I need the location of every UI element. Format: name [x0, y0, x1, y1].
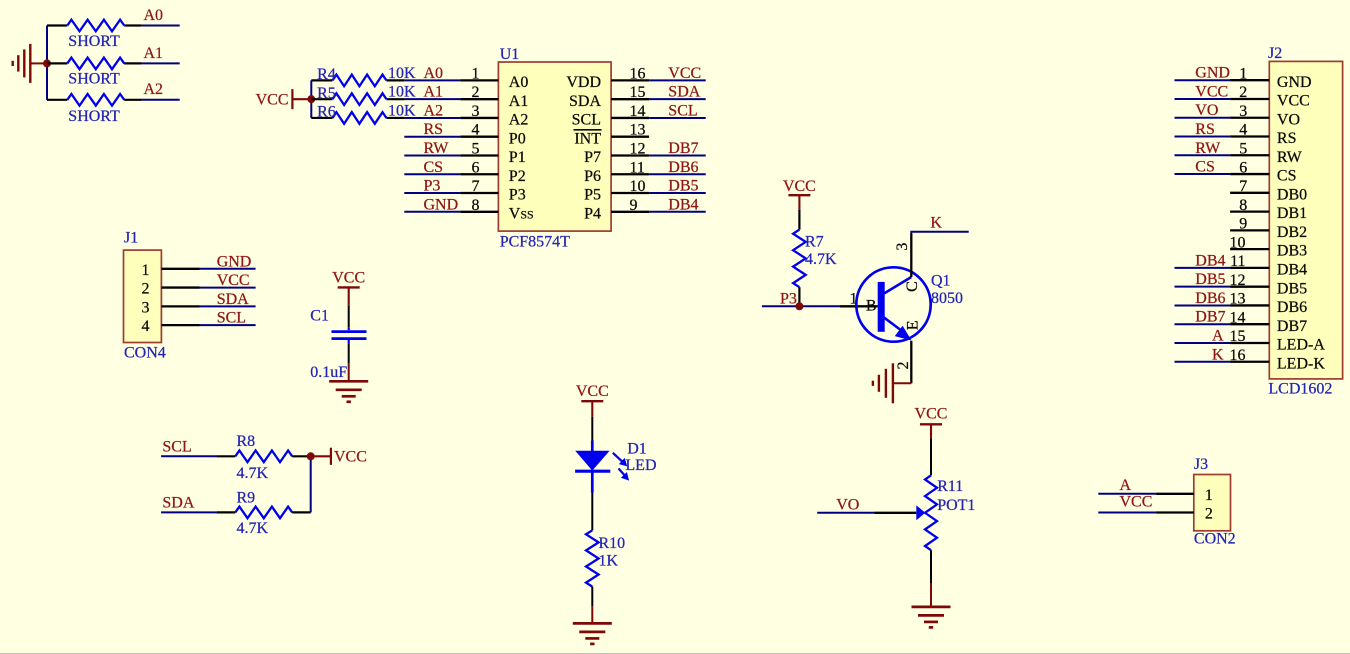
J2 pin 1 stub — [1230, 79, 1269, 81]
svg-text:RW: RW — [1195, 140, 1221, 157]
J2 pin 2 stub — [1230, 98, 1269, 100]
svg-text:A0: A0 — [144, 7, 164, 24]
svg-text:0.1uF: 0.1uF — [310, 364, 347, 381]
svg-text:1: 1 — [1205, 487, 1213, 504]
resistor R4 leads — [311, 79, 332, 81]
wire net DB7 (U1 pin 12) — [649, 154, 706, 156]
junction dot VCC / R5 — [307, 95, 315, 103]
J2 pin 16 stub — [1230, 361, 1269, 363]
svg-text:SCL: SCL — [217, 310, 246, 327]
svg-text:1K: 1K — [599, 553, 619, 570]
svg-text:4: 4 — [472, 122, 480, 139]
svg-text:B: B — [866, 298, 877, 315]
svg-text:15: 15 — [630, 84, 646, 101]
svg-text:R5: R5 — [317, 85, 336, 102]
U1 pin 3 stub — [460, 117, 498, 119]
svg-text:P7: P7 — [584, 149, 601, 166]
U1 pin 9 stub — [611, 211, 649, 213]
wire net SCL (R8) — [161, 455, 217, 457]
wire net P3 (Q1 base) — [762, 305, 840, 307]
wire net DB6 (J2 pin 13) — [1175, 304, 1231, 306]
svg-text:13: 13 — [630, 122, 646, 139]
svg-text:P5: P5 — [584, 187, 601, 204]
svg-text:8050: 8050 — [931, 290, 963, 307]
svg-text:A0: A0 — [509, 74, 529, 91]
svg-text:CS: CS — [424, 159, 444, 176]
svg-text:4.7K: 4.7K — [237, 465, 269, 482]
svg-text:DB6: DB6 — [668, 159, 698, 176]
wire net SCL (J1 pin 4) — [200, 324, 256, 326]
svg-text:16: 16 — [1230, 347, 1246, 364]
svg-text:5: 5 — [1239, 140, 1247, 157]
svg-text:LED-A: LED-A — [1277, 337, 1325, 354]
svg-text:P0: P0 — [509, 130, 526, 147]
wire net A (J3 pin 1) — [1098, 493, 1156, 495]
svg-text:3: 3 — [1239, 103, 1247, 120]
wire net SCL (U1 pin 14) — [649, 117, 706, 119]
ground power symbol (R10) — [591, 606, 593, 623]
transistor Q1 base bar — [878, 282, 885, 332]
svg-text:4: 4 — [142, 318, 150, 335]
svg-text:GND: GND — [424, 196, 459, 213]
svg-text:VCC: VCC — [1277, 93, 1310, 110]
svg-text:7: 7 — [472, 178, 480, 195]
U1 pin 12 stub — [611, 154, 649, 156]
resistor R7 zigzag — [793, 230, 806, 288]
wire net A0 (U1 pin 1) — [405, 79, 461, 81]
J2 pin 7 stub — [1230, 192, 1269, 194]
svg-text:DB5: DB5 — [668, 178, 698, 195]
svg-text:DB7: DB7 — [1277, 318, 1307, 335]
wire D1 anode — [591, 417, 593, 441]
U1 pin 4 stub — [460, 136, 498, 138]
svg-text:1: 1 — [472, 65, 480, 82]
svg-text:14: 14 — [630, 103, 646, 120]
svg-text:A2: A2 — [509, 112, 529, 129]
svg-text:K: K — [930, 214, 942, 231]
svg-text:P6: P6 — [584, 168, 601, 185]
J2 pin 4 stub — [1230, 135, 1269, 137]
svg-text:12: 12 — [630, 140, 646, 157]
svg-text:DB2: DB2 — [1277, 224, 1307, 241]
svg-text:VO: VO — [836, 497, 859, 514]
wire net RS (J2 pin 4) — [1175, 136, 1231, 138]
transistor Q1 circle — [856, 267, 930, 341]
wire net SDA (R9) — [161, 511, 217, 513]
svg-text:A1: A1 — [144, 45, 164, 62]
svg-text:R4: R4 — [317, 66, 336, 83]
J3 pin 1 stub — [1156, 493, 1194, 495]
svg-text:LED: LED — [625, 457, 656, 474]
wire net SDA (U1 pin 15) — [649, 98, 706, 100]
resistor R5 leads — [311, 98, 332, 100]
J1 pin 2 stub — [161, 286, 199, 288]
svg-text:13: 13 — [1230, 291, 1246, 308]
VCC power symbol (R8/R9) — [311, 455, 331, 457]
wire net A0 (top-left) — [141, 25, 180, 27]
wire net A1 (top-left) — [141, 62, 180, 64]
wire net A2 (top-left) — [141, 99, 180, 101]
Q1 pin 2 stub (emitter) — [910, 341, 912, 384]
svg-text:A: A — [1120, 477, 1132, 494]
svg-text:DB4: DB4 — [1277, 262, 1307, 279]
svg-text:A2: A2 — [144, 81, 164, 98]
svg-text:12: 12 — [1230, 272, 1246, 289]
svg-text:VSS: VSS — [509, 205, 534, 222]
junction dot address bus / ground — [43, 59, 51, 67]
wire net VCC (J2 pin 2) — [1175, 98, 1231, 100]
svg-text:K: K — [1212, 346, 1224, 363]
ground power symbol (address bus) — [29, 44, 31, 83]
svg-text:3: 3 — [142, 299, 150, 316]
J1 pin 4 stub — [161, 324, 199, 326]
svg-text:DB6: DB6 — [1277, 299, 1307, 316]
svg-text:C: C — [904, 281, 921, 292]
wire net DB7 (J2 pin 14) — [1175, 323, 1231, 325]
resistor R8 zigzag — [235, 451, 292, 463]
svg-text:P4: P4 — [584, 205, 601, 222]
svg-text:8: 8 — [472, 197, 480, 214]
svg-text:C1: C1 — [310, 308, 329, 325]
window bottom edge — [0, 653, 1350, 654]
Q1 pin 1 stub (base) — [840, 305, 878, 307]
svg-text:2: 2 — [472, 84, 480, 101]
svg-text:RS: RS — [1195, 121, 1215, 138]
junction dot R8/VCC — [307, 452, 315, 460]
svg-text:1: 1 — [142, 262, 150, 279]
LED D1 light arrow 2 — [619, 469, 626, 477]
svg-text:10K: 10K — [388, 102, 416, 119]
ground power symbol (R11) — [930, 584, 932, 607]
svg-text:DB4: DB4 — [1195, 252, 1225, 269]
wire net P3 (U1 pin 7) — [404, 192, 460, 194]
U1 pin 11 stub — [611, 173, 649, 175]
svg-text:4.7K: 4.7K — [805, 251, 837, 268]
wire net A2 (U1 pin 3) — [405, 117, 461, 119]
svg-text:P3: P3 — [424, 178, 441, 195]
J1 pin 1 stub — [161, 268, 199, 270]
wire net DB4 (U1 pin 9) — [649, 211, 706, 213]
U1 pin 5 stub — [460, 154, 498, 156]
svg-text:10K: 10K — [388, 65, 416, 82]
wire net CS (U1 pin 6) — [404, 173, 460, 175]
svg-text:14: 14 — [1230, 309, 1246, 326]
svg-text:VO: VO — [1277, 111, 1300, 128]
wire R11 bottom — [930, 550, 932, 584]
U1 pin 10 stub — [611, 192, 649, 194]
svg-text:2: 2 — [142, 281, 150, 298]
resistor SHORT (A2 row) leads — [47, 99, 67, 101]
wire vertical address bus — [46, 26, 48, 100]
svg-text:J3: J3 — [1194, 456, 1208, 473]
svg-text:6: 6 — [1239, 159, 1247, 176]
svg-text:P1: P1 — [509, 149, 526, 166]
svg-text:CON2: CON2 — [1194, 531, 1236, 548]
wire net RW (J2 pin 5) — [1175, 154, 1231, 156]
resistor R6 zigzag — [333, 112, 387, 124]
svg-text:RW: RW — [424, 140, 450, 157]
transistor Q1 emitter diagonal with arrow — [884, 318, 900, 330]
svg-text:R11: R11 — [937, 478, 963, 495]
svg-text:POT1: POT1 — [937, 497, 975, 514]
svg-text:A0: A0 — [424, 65, 444, 82]
svg-text:GND: GND — [1195, 65, 1230, 82]
svg-text:7: 7 — [1239, 178, 1247, 195]
svg-text:2: 2 — [1205, 506, 1213, 523]
R11 wiper arrow — [916, 505, 925, 520]
svg-text:GND: GND — [1277, 74, 1312, 91]
svg-text:P2: P2 — [509, 168, 526, 185]
LED D1 triangle — [591, 441, 594, 452]
svg-text:VCC: VCC — [256, 91, 289, 108]
U1 pin 6 stub — [460, 173, 498, 175]
svg-text:U1: U1 — [500, 46, 520, 63]
svg-text:J1: J1 — [124, 230, 138, 247]
wire C1 top — [348, 306, 350, 327]
svg-text:R6: R6 — [317, 104, 336, 121]
svg-text:3: 3 — [472, 103, 480, 120]
svg-text:P3: P3 — [509, 187, 526, 204]
J2 pin 8 stub — [1230, 210, 1269, 212]
wire net GND (J2 pin 1) — [1175, 79, 1231, 81]
wire net DB5 (U1 pin 10) — [649, 192, 706, 194]
svg-text:9: 9 — [1239, 216, 1247, 233]
svg-text:VCC: VCC — [217, 272, 250, 289]
svg-text:VCC: VCC — [783, 178, 816, 195]
svg-text:INT: INT — [574, 130, 601, 147]
J2 pin 11 stub — [1230, 267, 1269, 269]
svg-text:R8: R8 — [237, 433, 256, 450]
connector J1 body (CON4) — [124, 250, 162, 342]
svg-text:VCC: VCC — [576, 383, 609, 400]
transistor Q1 collector diagonal — [884, 277, 911, 294]
resistor R9 leads — [217, 511, 235, 513]
svg-text:VCC: VCC — [1120, 493, 1153, 510]
J2 pin 3 stub — [1230, 117, 1269, 119]
U1 pin 2 stub — [460, 98, 498, 100]
potentiometer R11 zigzag — [925, 475, 937, 550]
op-amp U1 body (PCF8574T) — [498, 62, 611, 231]
U1 pin 15 stub — [611, 98, 649, 100]
svg-text:DB7: DB7 — [668, 140, 698, 157]
svg-text:9: 9 — [630, 197, 638, 214]
wire net VO (wiper) — [817, 512, 874, 514]
Q1 pin 3 stub (collector) — [910, 234, 912, 278]
svg-text:DB6: DB6 — [1195, 290, 1225, 307]
svg-text:J2: J2 — [1268, 45, 1282, 62]
svg-text:DB4: DB4 — [668, 196, 698, 213]
svg-text:VCC: VCC — [668, 65, 701, 82]
R11 wiper stub — [875, 512, 917, 514]
svg-text:11: 11 — [1230, 253, 1245, 270]
svg-text:SDA: SDA — [162, 495, 194, 512]
wire net CS (J2 pin 6) — [1175, 173, 1231, 175]
svg-text:15: 15 — [1230, 328, 1246, 345]
U1 pin 14 stub — [611, 117, 649, 119]
capacitor C1 plates — [348, 327, 350, 330]
wire net RW (U1 pin 5) — [404, 154, 460, 156]
svg-text:A1: A1 — [509, 93, 529, 110]
svg-text:DB5: DB5 — [1277, 280, 1307, 297]
svg-text:D1: D1 — [627, 441, 647, 458]
U1 pin 13 stub — [611, 136, 649, 138]
svg-text:SHORT: SHORT — [68, 70, 120, 87]
svg-text:SDA: SDA — [668, 84, 700, 101]
wire net DB5 (J2 pin 12) — [1175, 286, 1231, 288]
wire net DB4 (J2 pin 11) — [1175, 267, 1231, 269]
wire vertical R4-R6 bus — [310, 80, 312, 118]
J3 pin 2 stub — [1156, 511, 1194, 513]
svg-text:DB7: DB7 — [1195, 309, 1225, 326]
svg-text:LCD1602: LCD1602 — [1268, 380, 1332, 397]
svg-text:GND: GND — [217, 253, 252, 270]
svg-text:R7: R7 — [805, 234, 824, 251]
U1 pin 8 stub — [460, 211, 498, 213]
wire net VO (J2 pin 3) — [1175, 117, 1231, 119]
J1 pin 3 stub — [161, 305, 199, 307]
svg-text:A: A — [1212, 327, 1224, 344]
wire net VCC (U1 pin 16) — [649, 79, 706, 81]
resistor SHORT (A0 row) leads — [47, 24, 67, 26]
wire net A1 (U1 pin 2) — [405, 98, 461, 100]
wire net A (J2 pin 15) — [1175, 342, 1231, 344]
svg-text:E: E — [905, 320, 922, 330]
svg-text:RW: RW — [1277, 149, 1303, 166]
svg-text:VO: VO — [1195, 102, 1218, 119]
svg-text:SHORT: SHORT — [68, 33, 120, 50]
svg-text:A1: A1 — [424, 84, 444, 101]
svg-text:P3: P3 — [780, 290, 797, 307]
svg-text:PCF8574T: PCF8574T — [500, 234, 570, 251]
svg-text:VCC: VCC — [332, 269, 365, 286]
J2 pin 9 stub — [1230, 229, 1269, 231]
svg-text:SDA: SDA — [217, 291, 249, 308]
svg-text:4.7K: 4.7K — [237, 520, 269, 537]
LED D1 cathode bar — [575, 470, 610, 473]
J2 pin 10 stub — [1230, 248, 1269, 250]
svg-text:VCC: VCC — [334, 449, 367, 466]
svg-text:10K: 10K — [388, 84, 416, 101]
svg-text:SHORT: SHORT — [68, 108, 120, 125]
svg-text:R9: R9 — [237, 489, 256, 506]
wire net VCC (J3 pin 2) — [1098, 512, 1156, 514]
ground power symbol (C1) — [348, 363, 350, 381]
resistor R7 leads — [798, 210, 800, 230]
J2 pin 14 stub — [1230, 323, 1269, 325]
svg-text:DB0: DB0 — [1277, 186, 1307, 203]
wire net DB6 (U1 pin 11) — [649, 173, 706, 175]
svg-text:LED-K: LED-K — [1277, 355, 1325, 372]
svg-text:SDA: SDA — [569, 93, 601, 110]
ground power symbol (Q1 emitter) — [893, 382, 911, 384]
U1 pin 1 stub — [460, 79, 498, 81]
connector J2 body (LCD1602) — [1269, 61, 1342, 379]
wire net SDA (J1 pin 3) — [200, 305, 256, 307]
resistor SHORT (A1 row) leads — [47, 62, 67, 64]
junction dot P3/R7 — [795, 302, 803, 310]
resistor R5 zigzag — [333, 93, 387, 105]
svg-text:6: 6 — [472, 159, 480, 176]
J2 pin 13 stub — [1230, 304, 1269, 306]
svg-text:5: 5 — [472, 140, 480, 157]
wire net GND (J1 pin 1) — [200, 268, 256, 270]
svg-text:Q1: Q1 — [931, 272, 951, 289]
U1 pin 7 stub — [460, 192, 498, 194]
J2 pin 15 stub — [1230, 342, 1269, 344]
svg-text:DB1: DB1 — [1277, 205, 1307, 222]
svg-text:10: 10 — [1230, 234, 1246, 251]
LED D1 light arrow 1 — [613, 453, 624, 463]
resistor SHORT (A1 row) zigzag — [67, 58, 124, 70]
svg-text:CS: CS — [1195, 159, 1215, 176]
svg-text:RS: RS — [1277, 130, 1297, 147]
svg-text:8: 8 — [1239, 197, 1247, 214]
svg-text:SCL: SCL — [572, 112, 601, 129]
resistor R6 leads — [311, 117, 332, 119]
svg-text:SCL: SCL — [162, 438, 191, 455]
svg-text:RS: RS — [424, 121, 444, 138]
svg-text:A2: A2 — [424, 102, 444, 119]
wire net K (J2 pin 16) — [1175, 361, 1231, 363]
svg-text:3: 3 — [894, 243, 911, 251]
J2 pin 6 stub — [1230, 173, 1269, 175]
svg-text:VCC: VCC — [915, 406, 948, 423]
J2 pin 5 stub — [1230, 154, 1269, 156]
resistor R4 zigzag — [333, 75, 387, 87]
svg-text:2: 2 — [895, 362, 912, 370]
svg-text:DB5: DB5 — [1195, 271, 1225, 288]
wire net K (collector) — [911, 232, 968, 234]
svg-text:1: 1 — [1239, 65, 1247, 82]
svg-text:11: 11 — [630, 159, 645, 176]
wire D1 to R10 — [591, 493, 593, 531]
svg-text:CS: CS — [1277, 168, 1297, 185]
svg-text:R10: R10 — [599, 535, 626, 552]
wire net VCC (J1 pin 2) — [200, 287, 256, 289]
svg-text:10: 10 — [630, 178, 646, 195]
svg-text:4: 4 — [1239, 122, 1247, 139]
wire net RS (U1 pin 4) — [404, 136, 460, 138]
wire net GND (U1 pin 8) — [404, 211, 460, 213]
wire C1 bottom — [348, 343, 350, 363]
svg-text:SCL: SCL — [668, 102, 697, 119]
svg-text:VCC: VCC — [1195, 83, 1228, 100]
wire R10 bottom — [591, 587, 593, 607]
svg-text:16: 16 — [630, 65, 646, 82]
resistor R8 leads — [217, 455, 235, 457]
wire R8/R9 junction vertical — [310, 456, 312, 512]
resistor R9 zigzag — [235, 507, 292, 519]
wire R11 top — [930, 438, 932, 475]
resistor SHORT (A0 row) zigzag — [67, 20, 124, 32]
svg-text:2: 2 — [1239, 84, 1247, 101]
resistor R10 zigzag — [586, 530, 599, 586]
svg-text:DB3: DB3 — [1277, 243, 1307, 260]
J2 pin 12 stub — [1230, 286, 1269, 288]
svg-text:CON4: CON4 — [124, 345, 166, 362]
svg-text:VDD: VDD — [566, 74, 601, 91]
connector J3 body (CON2) — [1194, 475, 1231, 531]
U1 pin 16 stub — [611, 79, 649, 81]
resistor SHORT (A2 row) zigzag — [67, 94, 124, 106]
U1 INT overbar — [574, 129, 602, 131]
